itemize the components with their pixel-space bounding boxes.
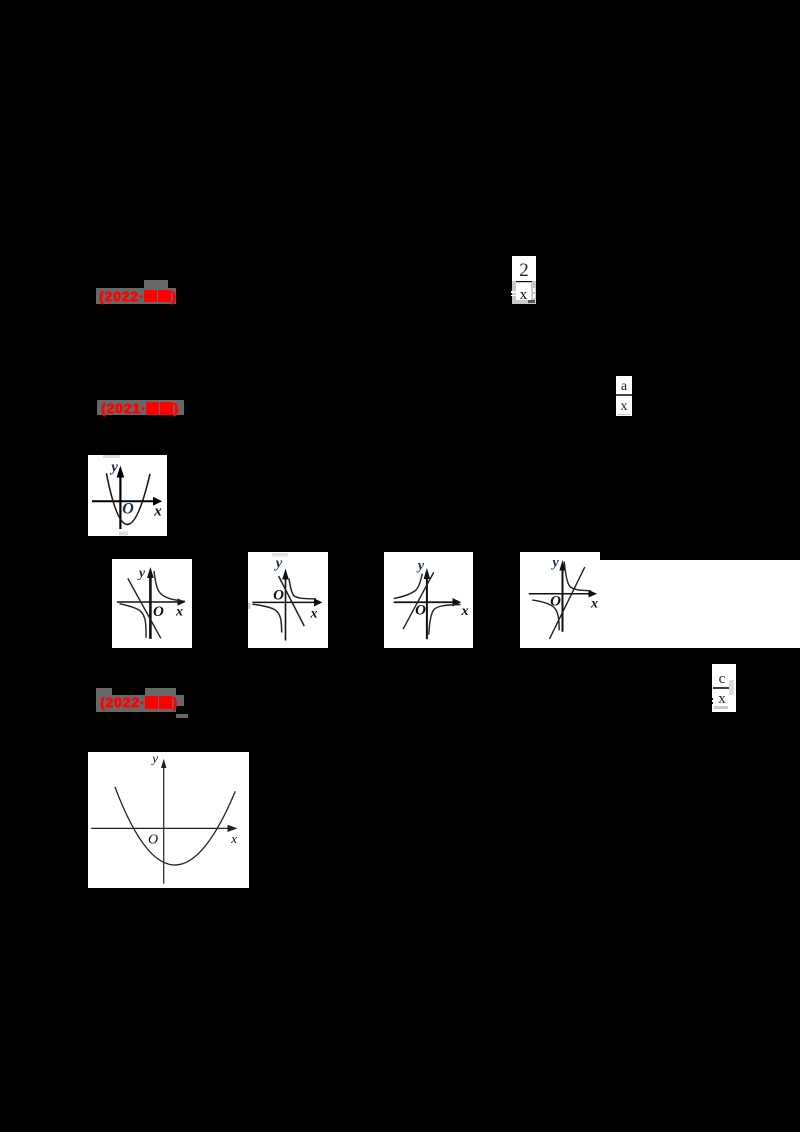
svg-text:x: x bbox=[175, 605, 183, 620]
svg-text:O: O bbox=[148, 833, 158, 848]
y-axis bbox=[163, 765, 165, 884]
line ascending bbox=[550, 567, 585, 639]
svg-text:x: x bbox=[153, 504, 162, 520]
label L3 gray speck bottom right bbox=[176, 714, 188, 718]
hyperbola Q4 branch bbox=[429, 604, 461, 634]
y-axis bbox=[149, 575, 152, 639]
label L2 gray highlight bbox=[97, 400, 184, 415]
hyperbola Q3 branch bbox=[120, 604, 147, 638]
fraction 2/x denominator white box bbox=[516, 283, 531, 300]
x-axis bbox=[252, 601, 315, 603]
fraction a/x denominator x bbox=[616, 400, 632, 414]
gray strip bottom bbox=[119, 532, 128, 536]
label L1 gray highlight notch bbox=[144, 280, 168, 288]
y-axis bbox=[119, 473, 121, 529]
fraction a/x white box bbox=[616, 376, 632, 416]
graph option D drawing bbox=[520, 552, 620, 648]
x-axis bbox=[92, 500, 156, 502]
label L3 red text bbox=[100, 695, 178, 709]
svg-text:x: x bbox=[590, 596, 598, 611]
white specks right of 2/x bbox=[533, 288, 535, 292]
y-axis bbox=[285, 576, 287, 641]
svg-text:O: O bbox=[550, 593, 561, 609]
fraction a/x bar bbox=[616, 394, 632, 396]
label L3 gray highlight main bbox=[96, 695, 176, 712]
fraction y=2/x : numerator white box bbox=[512, 256, 536, 281]
graph option D wide white box bbox=[520, 552, 800, 648]
fraction a/x bottom gray strip bbox=[617, 414, 630, 416]
hyperbola Q1 branch bbox=[289, 578, 316, 598]
dark patch bottom right of 2/x bbox=[528, 300, 535, 303]
graph option C box bbox=[384, 552, 473, 648]
label L1 red text (2022·__) bbox=[99, 289, 177, 303]
label L3 gray patches top bbox=[96, 688, 112, 696]
black notch over D top right bbox=[600, 552, 800, 560]
svg-text:y: y bbox=[150, 752, 158, 766]
fraction c/x bar bbox=[713, 687, 729, 689]
x-axis bbox=[91, 827, 229, 829]
line ascending bbox=[403, 572, 434, 629]
graph option A box bbox=[112, 559, 192, 648]
graph option B box bbox=[248, 552, 328, 648]
hyperbola Q1 branch bbox=[564, 561, 591, 590]
line descending bbox=[279, 576, 305, 626]
label L1 gray highlight bbox=[96, 288, 176, 304]
gray strip top bbox=[103, 455, 120, 458]
x-axis bbox=[394, 601, 454, 603]
graph P1 parabola box bbox=[88, 455, 167, 536]
label L2 red text (2021·__) bbox=[101, 401, 179, 415]
parabola bbox=[106, 473, 150, 524]
fraction c/x numerator c bbox=[712, 672, 732, 688]
svg-text:x: x bbox=[461, 604, 469, 619]
fraction c/x gray patch right bbox=[729, 680, 734, 696]
fraction 2/x bar bbox=[516, 281, 532, 283]
fraction a/x numerator a bbox=[616, 380, 632, 394]
fraction 2/x denominator glyph x bbox=[516, 288, 531, 302]
svg-text:x: x bbox=[230, 831, 237, 846]
hyperbola Q3 branch bbox=[532, 600, 559, 630]
white equals sign left of 2/x bbox=[511, 291, 516, 293]
hyperbola Q2 branch bbox=[394, 573, 423, 598]
fraction c/x black marks at left edge bbox=[711, 698, 713, 700]
line descending bbox=[128, 578, 161, 638]
svg-text:y: y bbox=[550, 555, 559, 570]
parabola bbox=[115, 787, 235, 865]
svg-text:y: y bbox=[274, 555, 283, 571]
hyperbola Q1 branch bbox=[154, 571, 185, 601]
label L3 gray right extension bbox=[176, 695, 184, 706]
fraction c/x white box bbox=[712, 664, 736, 712]
fraction c/x bottom gray strip bbox=[714, 706, 728, 709]
fraction 2/x numerator glyph 2 bbox=[512, 261, 536, 281]
fraction 2/x lower gray block bbox=[512, 281, 536, 304]
x-axis bbox=[529, 592, 590, 594]
x-axis bbox=[117, 601, 180, 603]
svg-text:O: O bbox=[122, 501, 134, 518]
svg-text:y: y bbox=[416, 558, 425, 573]
svg-text:O: O bbox=[415, 602, 426, 618]
svg-text:y: y bbox=[109, 460, 118, 476]
svg-text:O: O bbox=[153, 604, 164, 620]
graph P2 big parabola box bbox=[88, 752, 249, 888]
svg-text:O: O bbox=[273, 587, 284, 603]
hyperbola Q3 branch bbox=[252, 604, 281, 632]
fraction c/x denominator x bbox=[712, 692, 732, 708]
y-axis bbox=[562, 567, 564, 632]
y-axis bbox=[426, 575, 428, 639]
svg-text:x: x bbox=[310, 606, 318, 621]
svg-text:y: y bbox=[137, 566, 146, 581]
